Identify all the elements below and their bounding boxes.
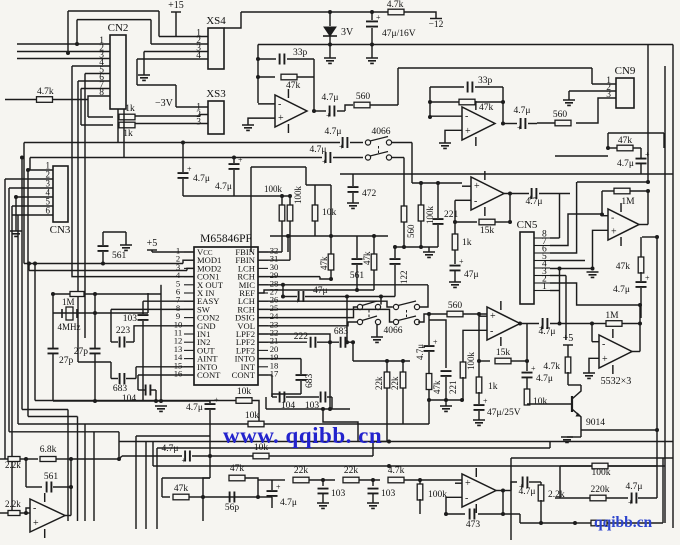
- svg-text:4.7μ: 4.7μ: [617, 159, 634, 169]
- svg-text:221: 221: [448, 381, 458, 395]
- svg-text:+: +: [465, 478, 471, 489]
- svg-text:16: 16: [174, 369, 183, 379]
- svg-text:4066: 4066: [372, 127, 391, 137]
- svg-text:CN2: CN2: [108, 22, 129, 34]
- svg-text:47k: 47k: [616, 262, 631, 272]
- svg-text:10k: 10k: [245, 411, 260, 421]
- svg-text:5532×3: 5532×3: [601, 376, 632, 387]
- svg-text:1k: 1k: [488, 382, 498, 392]
- svg-text:47μ/25V: 47μ/25V: [487, 408, 521, 418]
- svg-text:560: 560: [406, 224, 416, 238]
- svg-text:683: 683: [113, 384, 128, 394]
- svg-text:4.7μ: 4.7μ: [193, 174, 210, 184]
- svg-text:+: +: [278, 113, 284, 124]
- svg-text:47k: 47k: [174, 484, 189, 494]
- svg-text:6: 6: [46, 206, 51, 216]
- svg-text:47k: 47k: [432, 380, 442, 394]
- svg-text:4.7μ: 4.7μ: [415, 344, 425, 360]
- svg-text:561: 561: [350, 271, 365, 281]
- svg-text:4.7μ: 4.7μ: [536, 374, 553, 384]
- svg-text:+: +: [628, 498, 633, 507]
- svg-text:+: +: [182, 456, 187, 465]
- svg-text:4.7μ: 4.7μ: [519, 487, 536, 497]
- svg-text:-: -: [611, 213, 614, 224]
- svg-text:473: 473: [466, 520, 481, 530]
- svg-text:4.7μ: 4.7μ: [322, 93, 339, 103]
- svg-text:-: -: [490, 326, 493, 337]
- svg-text:-: -: [465, 493, 468, 504]
- svg-text:27p: 27p: [59, 356, 74, 366]
- svg-text:122: 122: [399, 271, 409, 285]
- svg-text:1M: 1M: [62, 297, 75, 307]
- svg-text:4.7k: 4.7k: [37, 87, 54, 97]
- svg-text:104: 104: [122, 394, 137, 404]
- svg-text:683: 683: [305, 374, 315, 389]
- svg-text:561: 561: [44, 472, 59, 482]
- svg-text:CN9: CN9: [615, 65, 636, 77]
- svg-text:+: +: [531, 364, 536, 373]
- svg-text:100k: 100k: [428, 490, 447, 500]
- svg-text:XS4: XS4: [206, 15, 226, 27]
- svg-text:22k: 22k: [374, 376, 384, 390]
- svg-text:103: 103: [123, 314, 138, 324]
- svg-text:4.7k: 4.7k: [543, 362, 560, 372]
- svg-text:100k: 100k: [425, 206, 435, 225]
- svg-text:6.8k: 6.8k: [40, 445, 57, 455]
- svg-text:+: +: [517, 124, 522, 133]
- svg-text:22k: 22k: [390, 376, 400, 390]
- svg-text:+15: +15: [168, 0, 184, 11]
- svg-text:560: 560: [448, 301, 463, 311]
- svg-text:27p: 27p: [74, 347, 89, 357]
- svg-text:4.7μ: 4.7μ: [310, 145, 327, 155]
- svg-text:2.2k: 2.2k: [5, 499, 21, 509]
- svg-text:+: +: [238, 156, 243, 165]
- svg-text:+5: +5: [147, 238, 158, 249]
- svg-text:+: +: [474, 181, 480, 192]
- svg-text:4.7μ: 4.7μ: [186, 403, 203, 413]
- svg-text:XS3: XS3: [206, 88, 226, 100]
- svg-text:3: 3: [196, 118, 201, 128]
- svg-text:+: +: [490, 311, 496, 322]
- svg-text:223: 223: [116, 326, 131, 336]
- svg-text:4.7μ: 4.7μ: [215, 182, 232, 192]
- svg-text:22k: 22k: [344, 466, 359, 476]
- svg-text:+: +: [611, 226, 617, 237]
- svg-text:47μ: 47μ: [464, 270, 479, 280]
- svg-text:+: +: [326, 111, 331, 120]
- svg-text:47μ: 47μ: [313, 286, 328, 296]
- svg-text:+: +: [276, 483, 281, 492]
- svg-text:+: +: [187, 165, 192, 174]
- svg-text:4.7μ: 4.7μ: [162, 444, 179, 454]
- svg-text:103: 103: [331, 489, 346, 499]
- svg-text:−3V: −3V: [155, 98, 174, 109]
- svg-text:221: 221: [444, 210, 459, 220]
- svg-text:472: 472: [362, 189, 377, 199]
- svg-text:10k: 10k: [533, 397, 548, 407]
- svg-text:-: -: [474, 196, 477, 207]
- svg-text:+: +: [339, 143, 344, 152]
- svg-text:33p: 33p: [293, 48, 308, 58]
- svg-text:4.7μ: 4.7μ: [539, 327, 556, 337]
- svg-text:4.7μ: 4.7μ: [613, 285, 630, 295]
- svg-text:4.7μ: 4.7μ: [526, 197, 543, 207]
- svg-text:17: 17: [270, 369, 279, 379]
- svg-text:9014: 9014: [586, 418, 605, 428]
- svg-text:CONT: CONT: [197, 370, 221, 380]
- svg-text:4066: 4066: [384, 326, 403, 336]
- svg-text:www. qqibb. cn: www. qqibb. cn: [223, 423, 382, 448]
- svg-text:4.7μ: 4.7μ: [626, 482, 643, 492]
- svg-text:+: +: [483, 397, 488, 406]
- svg-text:100k: 100k: [264, 184, 283, 194]
- svg-text:qqibb.cn: qqibb.cn: [594, 514, 653, 531]
- svg-text:+5: +5: [563, 333, 574, 344]
- svg-text:47μ/16V: 47μ/16V: [382, 29, 416, 39]
- svg-text:4.7μ: 4.7μ: [280, 498, 297, 508]
- svg-text:100k: 100k: [466, 352, 476, 371]
- svg-text:4.7μ: 4.7μ: [325, 127, 342, 137]
- svg-text:-: -: [278, 99, 281, 110]
- svg-text:+: +: [322, 158, 327, 167]
- svg-text:CONT: CONT: [232, 370, 256, 380]
- svg-text:683: 683: [334, 327, 349, 337]
- svg-text:220k: 220k: [591, 485, 610, 495]
- svg-text:10k: 10k: [237, 387, 252, 397]
- svg-text:+: +: [602, 354, 608, 365]
- svg-text:+: +: [645, 274, 650, 283]
- svg-text:4.7k: 4.7k: [388, 466, 405, 476]
- svg-text:15k: 15k: [480, 226, 495, 236]
- svg-text:1M: 1M: [621, 197, 635, 207]
- svg-text:33p: 33p: [478, 76, 493, 86]
- svg-text:M65846PF: M65846PF: [200, 233, 252, 245]
- svg-text:CN5: CN5: [517, 219, 538, 231]
- svg-text:1M: 1M: [605, 311, 619, 321]
- svg-text:CN3: CN3: [50, 224, 71, 236]
- svg-text:561: 561: [112, 251, 127, 261]
- svg-text:560: 560: [356, 92, 371, 102]
- svg-text:10k: 10k: [322, 208, 337, 218]
- svg-text:56p: 56p: [225, 503, 240, 513]
- svg-text:47k: 47k: [479, 103, 494, 113]
- svg-text:4.7k: 4.7k: [387, 0, 404, 10]
- svg-text:47k: 47k: [362, 251, 372, 265]
- svg-text:1k: 1k: [125, 104, 135, 114]
- svg-text:+: +: [33, 518, 39, 529]
- svg-text:-: -: [602, 339, 605, 350]
- svg-text:100k: 100k: [592, 468, 611, 478]
- svg-text:1k: 1k: [462, 238, 472, 248]
- svg-text:103: 103: [381, 489, 396, 499]
- svg-text:47k: 47k: [618, 136, 633, 146]
- svg-text:-: -: [465, 111, 468, 122]
- svg-text:47k: 47k: [319, 256, 329, 270]
- svg-text:+: +: [465, 126, 471, 137]
- svg-text:560: 560: [553, 110, 568, 120]
- svg-text:2.2k: 2.2k: [5, 460, 21, 470]
- svg-text:+: +: [433, 338, 438, 347]
- svg-text:22k: 22k: [294, 466, 309, 476]
- svg-text:-: -: [33, 503, 36, 514]
- svg-text:−12: −12: [429, 20, 444, 30]
- svg-text:15k: 15k: [496, 348, 511, 358]
- svg-text:4.7μ: 4.7μ: [514, 106, 531, 116]
- svg-text:100k: 100k: [293, 186, 303, 205]
- svg-text:4MHz: 4MHz: [58, 322, 81, 332]
- svg-text:3V: 3V: [341, 27, 354, 38]
- svg-text:+: +: [459, 257, 464, 266]
- svg-text:+: +: [376, 13, 381, 22]
